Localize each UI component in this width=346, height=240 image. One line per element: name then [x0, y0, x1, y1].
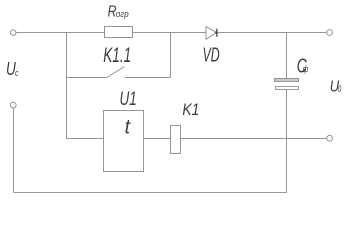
svg-text:0: 0: [338, 84, 341, 94]
svg-text:VD: VD: [203, 44, 220, 67]
switch K1.1 left lead: [67, 77, 107, 79]
diode VD: [206, 27, 219, 40]
svg-text:c: c: [15, 68, 19, 79]
capacitor Cf top plate: [275, 79, 299, 82]
wire: capacitor branch from top rail down to top plate: [286, 33, 288, 79]
terminal: output U0 top: [327, 30, 333, 36]
wire: bottom rail: [14, 192, 287, 194]
wire: bottom rail up to input terminal Uc bottom: [13, 108, 15, 193]
terminal: input Uc top: [10, 30, 16, 36]
terminal: input Uc bottom: [10, 102, 16, 108]
wire: U1 output to relay coil K1: [144, 138, 171, 140]
wire: top rail, resistor to diode: [133, 32, 207, 34]
wire: relay coil K1 to output terminal: [181, 138, 327, 140]
svg-text:K1: K1: [182, 101, 199, 119]
wire: top rail, input terminal to resistor: [16, 32, 105, 34]
svg-text:K1.1: K1.1: [103, 44, 131, 67]
wire: left branch down from top rail to U1 level: [67, 33, 104, 139]
svg-text:огр: огр: [116, 9, 129, 19]
wire: top rail, diode to output terminal: [217, 32, 326, 34]
capacitor Cf bottom plate: [276, 87, 299, 90]
terminal: output U0 bottom: [327, 135, 333, 141]
relay coil K1: [171, 126, 181, 154]
svg-text:t: t: [125, 116, 132, 138]
wire: capacitor bottom plate down to bottom rail: [286, 90, 288, 193]
resistor Rogr: [105, 27, 133, 38]
svg-text:ф: ф: [303, 64, 308, 75]
switch K1.1 blade: [107, 67, 125, 78]
timer block U1: [104, 111, 144, 172]
switch K1.1 right lead: [125, 77, 171, 79]
wire: switch right side up to top rail: [170, 33, 172, 78]
svg-text:U1: U1: [120, 89, 137, 110]
